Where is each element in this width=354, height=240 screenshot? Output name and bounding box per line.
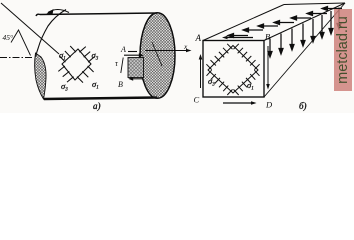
- hatch ticks SW side: [58, 66, 73, 82]
- arrow 6: [310, 13, 327, 15]
- shear arrow left edge (up): [200, 57, 202, 88]
- side face tau arrows row (pointing down): [268, 8, 341, 58]
- centerline mark in ellipse: [152, 42, 162, 66]
- arrow 6: [321, 15, 323, 35]
- arrow 8: [338, 8, 340, 27]
- svg-text:σ1: σ1: [59, 50, 66, 62]
- wire: shaft left break curve: [36, 10, 66, 57]
- shear arrow top edge (left): [225, 37, 253, 39]
- hatch ticks SE side: [77, 66, 94, 83]
- tau arrow top (right): [124, 54, 141, 56]
- arrow 5: [294, 17, 311, 19]
- arrow 2: [280, 34, 282, 52]
- svg-text:σ1: σ1: [247, 80, 254, 92]
- arrow 3: [261, 25, 278, 27]
- watermark metclad.ru: [334, 9, 352, 91]
- 45 deg leader line: [1, 3, 59, 54]
- arrow 7: [330, 11, 332, 31]
- hatch ticks NE side: [79, 47, 94, 63]
- svg-text:σ3: σ3: [61, 81, 68, 93]
- ticks NE side: [234, 44, 260, 70]
- arrow 4: [277, 22, 294, 24]
- svg-text:σ1: σ1: [92, 79, 99, 91]
- diamond element in front face: [206, 44, 259, 95]
- svg-text:A: A: [120, 45, 126, 54]
- svg-text:а): а): [93, 101, 101, 111]
- arrow 2: [246, 29, 263, 31]
- arrow 1: [231, 35, 248, 37]
- ticks SW side: [207, 70, 233, 95]
- axis arrow x right: [145, 50, 189, 52]
- shear arrow bottom edge (right): [223, 102, 253, 104]
- diagonal of side face (principal plane trace): [264, 3, 345, 97]
- top receding edge from A: [203, 5, 284, 41]
- svg-text:x: x: [183, 42, 188, 51]
- tau arrow bottom (left): [131, 78, 144, 80]
- ticks SE side: [234, 70, 260, 95]
- svg-text:A: A: [195, 33, 202, 43]
- hatch ticks NW side: [60, 46, 77, 62]
- angle arc 45: [11, 30, 31, 56]
- left break cross-section sliver (hatched): [35, 53, 46, 99]
- svg-text:σ3: σ3: [208, 76, 215, 88]
- wire: shaft bottom generator line: [44, 98, 157, 100]
- svg-text:D: D: [265, 100, 273, 110]
- top receding edge from B: [264, 3, 345, 41]
- svg-text:σ3: σ3: [92, 50, 99, 62]
- arrow 7: [325, 8, 342, 10]
- element diamond on shaft (principal stresses): [58, 46, 94, 83]
- axis dash-dot left: [0, 57, 33, 59]
- right end ellipse (hatched cross-section): [140, 13, 175, 99]
- arrow 4: [302, 24, 304, 44]
- arrow 1: [269, 39, 271, 55]
- arrow 5: [312, 19, 314, 39]
- top face tau arrows row (pointing left): [228, 7, 342, 38]
- svg-text:б): б): [299, 101, 307, 111]
- torque arc arrow: [48, 10, 69, 13]
- far top edge: [284, 3, 345, 5]
- arrow 3: [291, 29, 293, 48]
- ticks NW side: [206, 44, 232, 70]
- front face square: [203, 41, 264, 98]
- svg-text:45°: 45°: [3, 33, 14, 42]
- shear arrow right edge (down): [267, 46, 269, 86]
- svg-text:C: C: [194, 95, 200, 105]
- wire: shaft top generator line: [36, 13, 157, 16]
- element A square (pure shear): [128, 58, 144, 78]
- svg-text:B: B: [118, 80, 123, 89]
- svg-text:τ: τ: [115, 59, 119, 68]
